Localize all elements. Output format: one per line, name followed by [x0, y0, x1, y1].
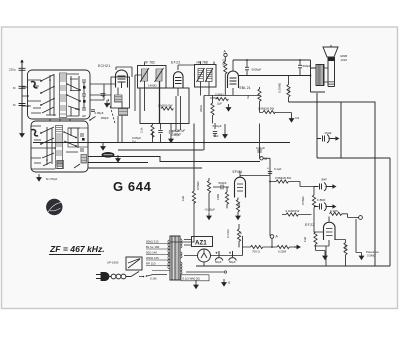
- mains plug: [96, 273, 109, 281]
- node D right: [359, 216, 363, 220]
- rectifier tube AZ1: [198, 249, 211, 262]
- svg-text:0.1/1Ω: 0.1/1Ω: [226, 229, 230, 238]
- svg-text:KF 762: KF 762: [144, 61, 155, 65]
- arrow right end: [294, 245, 300, 248]
- right feedback box: [341, 102, 375, 158]
- svg-text:50kΩ 210: 50kΩ 210: [146, 240, 159, 244]
- coupling capacitor M: [19, 86, 26, 88]
- ground potentiometer: [359, 253, 363, 260]
- svg-text:0.5MΩ: 0.5MΩ: [196, 181, 200, 190]
- resistor below EFM1: [236, 200, 239, 212]
- vertical rail x194: [193, 124, 195, 192]
- tuner box2 right coil: [81, 155, 87, 164]
- svg-text:+: +: [267, 167, 269, 171]
- transformer primary bumps: [168, 240, 170, 269]
- tuner box1 coil ladder: [57, 73, 70, 118]
- EBL21 wiring: [232, 60, 234, 95]
- svg-text:⊣0.05μF: ⊣0.05μF: [204, 208, 216, 212]
- mid bus y162: [88, 162, 148, 164]
- svg-text:EBL 21: EBL 21: [240, 86, 251, 90]
- svg-text:500pF: 500pF: [303, 64, 311, 68]
- IF1 primary coil: [140, 68, 149, 82]
- IF2 primary coil: [197, 68, 205, 82]
- capacitor 500pF: [298, 60, 302, 76]
- wires EBL area: [204, 87, 292, 159]
- svg-text:0.1μF: 0.1μF: [274, 167, 282, 171]
- arrow D1: [289, 115, 293, 122]
- IF1 secondary down lead: [159, 81, 161, 124]
- svg-text:ZF = 467 kHz.: ZF = 467 kHz.: [49, 244, 105, 254]
- dashed tuning gang link: [108, 99, 115, 123]
- resistor 0.25M: [277, 245, 289, 248]
- svg-text:HP: HP: [82, 114, 86, 118]
- ground antenna: [20, 130, 24, 137]
- IF2 wiring: [201, 62, 215, 96]
- tube EF22: [174, 72, 184, 88]
- svg-text:Tol: Tol: [287, 89, 291, 93]
- lower antenna capacitor: [19, 104, 26, 106]
- tuner box2 sub-box: [68, 128, 88, 147]
- svg-text:15HF: 15HF: [325, 131, 332, 135]
- coil LWB78: [119, 109, 128, 116]
- tube EFM1: [235, 177, 246, 197]
- svg-text:AZ1: AZ1: [195, 240, 207, 247]
- coil LWB48: [115, 95, 123, 102]
- tuner box1 interior wires and switches: [28, 74, 80, 116]
- ground near osc: [105, 100, 109, 107]
- wire D to EFM column: [262, 158, 271, 236]
- IF transformer 1 box: [138, 66, 167, 89]
- resistor 1M inside box: [161, 107, 173, 110]
- svg-text:50μF: 50μF: [229, 260, 236, 264]
- svg-text:M 170pF: M 170pF: [46, 177, 58, 181]
- voltage selector box: [126, 257, 142, 270]
- tuner box1 trimmer caps: [82, 80, 86, 110]
- ground left mid: [101, 143, 105, 150]
- svg-text:G 644: G 644: [113, 179, 152, 194]
- resistor below node A: [224, 62, 227, 74]
- tuner box2 coil ladder: [53, 126, 66, 169]
- wires transformer to speaker: [324, 45, 331, 82]
- resistor 2.2k left: [151, 125, 154, 137]
- resistor C1 vertical lower: [237, 229, 240, 241]
- svg-text:1400Ω: 1400Ω: [148, 84, 157, 88]
- logo: [46, 199, 62, 215]
- svg-text:1kΩ: 1kΩ: [303, 236, 307, 242]
- ground EF22 cathode: [323, 253, 327, 260]
- tuner box2 trimmers: [80, 134, 84, 151]
- tuner box2 interior wires and switches: [31, 126, 80, 169]
- svg-text:6.3Ω5: 6.3Ω5: [330, 209, 338, 213]
- wire into feedback box: [289, 101, 342, 103]
- speaker horn: [323, 47, 338, 61]
- cap 500pF EFM1: [221, 185, 223, 189]
- tube EBL21: [228, 71, 239, 88]
- svg-text:EF22: EF22: [305, 223, 315, 227]
- big IF decoupling box: [140, 88, 189, 124]
- ground EFM1 left: [207, 213, 211, 220]
- plus rail node: [243, 236, 247, 256]
- tuner box2 input coil: [32, 130, 39, 136]
- node A lower: [270, 235, 274, 239]
- svg-text:MP: MP: [75, 107, 79, 111]
- EFM1 top wire: [240, 171, 270, 177]
- ECH21 wiring: [90, 67, 132, 143]
- ground heater: [222, 279, 226, 286]
- tuner box1 antenna coil: [31, 82, 38, 88]
- right rail x390: [389, 158, 391, 266]
- dial lamp oval: [102, 152, 115, 158]
- svg-text:0.1MΩ/1W: 0.1MΩ/1W: [286, 209, 300, 213]
- resistor 0.5M/0.5W top: [276, 180, 288, 183]
- mains transformer core: [170, 236, 180, 280]
- resistor 700 ohm: [251, 245, 263, 248]
- resistor 1k cathode: [314, 232, 317, 244]
- resistor 1M small: [225, 192, 228, 204]
- cap 50 ohm + arrow: [213, 132, 217, 134]
- svg-text:50Ω: 50Ω: [213, 134, 219, 138]
- svg-text:50μF: 50μF: [215, 260, 222, 264]
- IF1 secondary coil: [155, 68, 164, 82]
- svg-text:Tol: Tol: [132, 140, 136, 144]
- output transformer: [316, 65, 324, 86]
- tuner box 1: [28, 70, 91, 119]
- bottom bus y267: [196, 265, 390, 267]
- IF transformer 2 box: [195, 65, 217, 88]
- bus y158 right: [317, 157, 390, 159]
- tuner left edge stubs: [22, 87, 111, 121]
- ground EFM1: [236, 213, 240, 220]
- arrow down mid: [223, 131, 227, 138]
- resistor 0.1M/1W right: [286, 213, 298, 216]
- resistor 20k vertical: [211, 103, 214, 115]
- cap left mid: [158, 131, 162, 133]
- EF22 wiring: [176, 65, 195, 130]
- resistor 6.3 ohm: [330, 212, 342, 215]
- switch arm below: [90, 117, 96, 121]
- electrolytic cap 2: [229, 251, 237, 261]
- mid bus y142: [33, 142, 290, 144]
- EBL21 grid resistor: [216, 97, 228, 100]
- ground below tuner box 2: [37, 174, 41, 181]
- heater label box: [181, 275, 209, 281]
- small cap left of osc: [91, 110, 95, 112]
- svg-text:1MΩ: 1MΩ: [216, 193, 220, 200]
- switch contacts to transformer: [143, 275, 148, 277]
- node D: [260, 157, 263, 160]
- IF2 secondary coil: [205, 68, 213, 82]
- svg-text:D1: D1: [296, 116, 300, 120]
- svg-text:ECH21: ECH21: [98, 64, 110, 68]
- resistor 0.25M tol: [287, 85, 290, 97]
- svg-text:0.1M: 0.1M: [150, 277, 157, 281]
- vertical rail x204: [118, 96, 204, 151]
- svg-text:0.05μF: 0.05μF: [95, 111, 104, 115]
- svg-text:0.01μF: 0.01μF: [213, 124, 222, 128]
- resistor 100k: [344, 243, 347, 255]
- cap 0.003uF: [169, 131, 173, 133]
- output wire to transformer: [233, 60, 325, 92]
- svg-text:50Ω 140: 50Ω 140: [146, 251, 157, 255]
- antenna input wire: [21, 60, 23, 130]
- svg-text:+: +: [240, 232, 242, 236]
- tuner box2 bottom switch: [74, 164, 80, 168]
- svg-text:20kΩ: 20kΩ: [199, 104, 203, 112]
- rail x375 lower: [374, 158, 376, 266]
- junction dots: [193, 59, 311, 248]
- EF22 second wiring: [314, 217, 329, 267]
- antenna series capacitor: [19, 68, 26, 70]
- tap leader wires: [146, 244, 170, 271]
- svg-text:5000pF: 5000pF: [252, 68, 262, 72]
- ground under cap: [169, 136, 173, 143]
- svg-text:0.1Ω Wk0.5Ω: 0.1Ω Wk0.5Ω: [183, 276, 201, 280]
- svg-text:2.2k: 2.2k: [140, 127, 144, 133]
- svg-text:500pF: 500pF: [219, 181, 227, 185]
- svg-text:BL for 190: BL for 190: [146, 245, 160, 249]
- heater wire a: [186, 271, 224, 273]
- cap and arrow top: [101, 94, 106, 98]
- transformer secondary bumps: [181, 239, 183, 248]
- tube ECH21: [116, 70, 128, 88]
- right rail from speaker area: [316, 93, 318, 158]
- svg-text:1kΩ: 1kΩ: [181, 195, 185, 201]
- big ground arrow EBL: [226, 104, 230, 111]
- AZ1 box: [192, 237, 213, 247]
- tube EF22 second: [324, 222, 336, 240]
- resistor 0.5M 0.5W horizontal: [263, 110, 275, 113]
- svg-text:0.5MΩ/0.5W: 0.5MΩ/0.5W: [275, 176, 291, 180]
- cap 0.01uF above D: [257, 150, 261, 152]
- ground right of dial lamp: [116, 155, 120, 162]
- svg-text:0.01μF: 0.01μF: [256, 146, 265, 150]
- svg-text:700 Ω: 700 Ω: [252, 250, 261, 254]
- svg-text:100k: 100k: [344, 244, 348, 251]
- svg-text:HF 768: HF 768: [197, 61, 208, 65]
- node A top: [224, 53, 227, 56]
- svg-text:180pF: 180pF: [101, 116, 109, 120]
- svg-text:1kΩ: 1kΩ: [237, 202, 241, 208]
- mid bus y168: [88, 167, 202, 169]
- svg-text:F 8MF: F 8MF: [317, 198, 326, 202]
- svg-text:EF22: EF22: [171, 61, 181, 65]
- svg-text:8HF: 8HF: [322, 178, 328, 182]
- 100k to bus: [335, 240, 346, 267]
- IF1 wiring: [135, 63, 145, 112]
- wires AZ1: [184, 240, 243, 267]
- oscillator sub-box under ECH21: [111, 77, 130, 108]
- svg-text:6kV=: 6kV=: [175, 132, 182, 136]
- resistor 0.5M left of EFM1: [207, 181, 210, 193]
- resistor 0.5M vertical right: [312, 195, 315, 207]
- tuner box2 bottom coil: [57, 161, 64, 169]
- svg-text:0.5MΩ: 0.5MΩ: [367, 254, 376, 258]
- svg-text:1016: 1016: [341, 58, 348, 62]
- svg-text:Wk/Ω 125: Wk/Ω 125: [146, 256, 159, 260]
- svg-text:0.25MΩ: 0.25MΩ: [278, 82, 282, 93]
- mains cable loops: [105, 274, 131, 279]
- svg-text:RP 110: RP 110: [146, 262, 156, 266]
- ground transformer: [194, 282, 198, 289]
- svg-text:2μF: 2μF: [217, 102, 222, 106]
- svg-text:EFM1: EFM1: [233, 170, 243, 174]
- svg-text:1 MΩ/0.5W: 1 MΩ/0.5W: [158, 104, 173, 108]
- svg-text:0.25M: 0.25M: [278, 250, 287, 254]
- left column to transformer: [170, 191, 194, 242]
- capacitor 5000pF: [245, 60, 249, 76]
- svg-text:UP-1600: UP-1600: [107, 261, 119, 265]
- svg-text:220μ: 220μ: [9, 68, 16, 72]
- svg-text:0.5MΩ/0.5W: 0.5MΩ/0.5W: [258, 107, 274, 111]
- wires below box: [153, 124, 172, 143]
- tuner box 2: [31, 121, 88, 172]
- electrolytic cap 1: [215, 251, 223, 261]
- speaker body: [328, 61, 335, 87]
- mid bus y157 stepped: [88, 157, 260, 162]
- resistor 1k left column: [192, 191, 195, 203]
- EBL21 screen resistor: [258, 89, 261, 101]
- svg-text:0.5MΩ: 0.5MΩ: [301, 196, 305, 205]
